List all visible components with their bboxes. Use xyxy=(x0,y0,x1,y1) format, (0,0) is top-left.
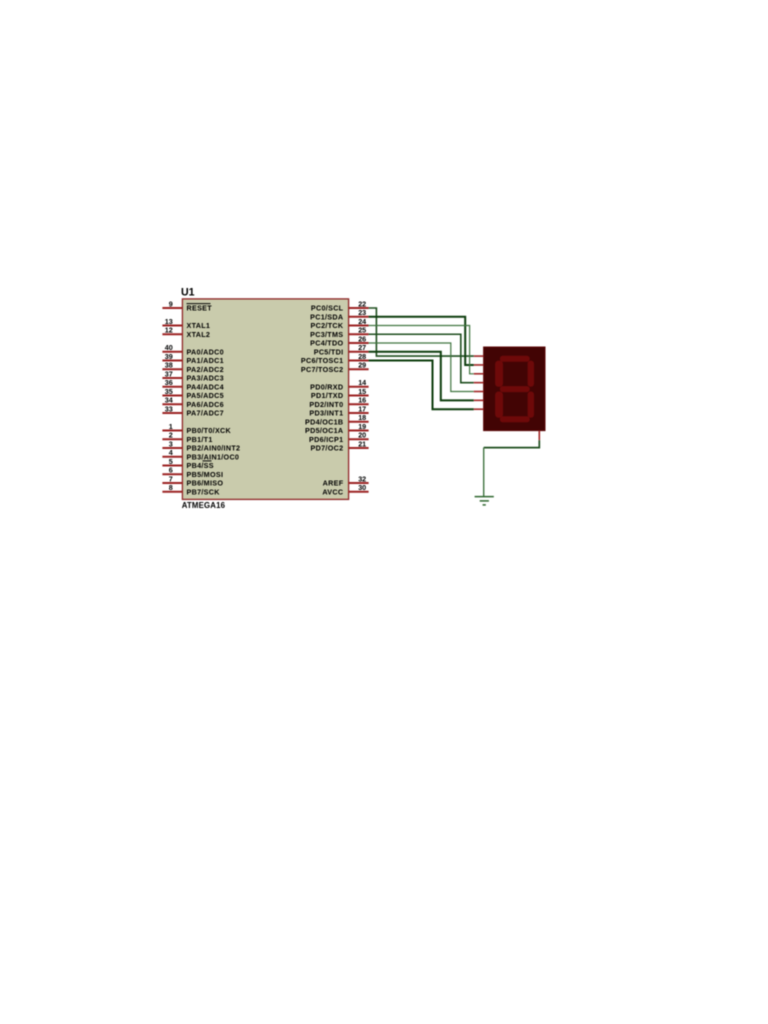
wire PC6 (pin 28) to display segment pin 7 xyxy=(369,361,474,410)
svg-text:7: 7 xyxy=(169,474,173,483)
pin 36 PA4/ADC4 (left stub) xyxy=(162,378,224,391)
svg-text:PB6/MISO: PB6/MISO xyxy=(187,479,224,488)
svg-text:26: 26 xyxy=(358,334,366,343)
svg-text:17: 17 xyxy=(358,404,366,413)
svg-text:16: 16 xyxy=(358,396,366,405)
value label ATMEGA16 xyxy=(182,501,226,510)
svg-text:PB7/SCK: PB7/SCK xyxy=(187,487,221,496)
pin 1 PB0/T0/XCK (left stub) xyxy=(162,422,231,435)
svg-text:XTAL2: XTAL2 xyxy=(187,330,211,339)
svg-text:3: 3 xyxy=(169,439,173,448)
wire PC0 (pin 22) to display segment pin 1 xyxy=(369,308,474,356)
segment a xyxy=(500,356,530,362)
segment f xyxy=(495,361,503,387)
svg-text:PA0/ADC0: PA0/ADC0 xyxy=(187,347,224,356)
svg-text:22: 22 xyxy=(358,299,366,308)
svg-text:20: 20 xyxy=(358,431,366,440)
pin 32 AREF (right stub) xyxy=(323,474,369,487)
wire display common to ground (upper segment) xyxy=(484,440,540,447)
svg-text:U1: U1 xyxy=(181,287,195,299)
svg-text:25: 25 xyxy=(358,326,366,335)
svg-text:PC2/TCK: PC2/TCK xyxy=(311,321,344,330)
pin 19 PD5/OC1A (right stub) xyxy=(305,422,369,435)
svg-text:PD6/ICP1: PD6/ICP1 xyxy=(309,435,343,444)
svg-text:5: 5 xyxy=(169,457,173,466)
svg-text:PA7/ADC7: PA7/ADC7 xyxy=(187,409,224,418)
svg-text:34: 34 xyxy=(165,396,173,405)
svg-text:4: 4 xyxy=(169,448,173,457)
microcontroller U1 ATMEGA16 body xyxy=(182,299,348,500)
wire PC5 (pin 27) to display segment pin 6 xyxy=(369,352,474,401)
svg-text:38: 38 xyxy=(165,361,173,370)
svg-text:39: 39 xyxy=(165,352,173,361)
segment c xyxy=(528,392,534,418)
wire PC1 (pin 23) to display segment pin 2 xyxy=(369,317,474,365)
display pin 3 stub xyxy=(474,373,484,375)
pin 5 PB4/SS (left stub) xyxy=(162,457,213,470)
svg-text:RESET: RESET xyxy=(187,304,213,313)
pin 14 PD0/RXD (right stub) xyxy=(310,378,368,391)
svg-text:PB3/AIN1/OC0: PB3/AIN1/OC0 xyxy=(187,452,240,461)
svg-text:21: 21 xyxy=(358,439,366,448)
svg-text:PA3/ADC3: PA3/ADC3 xyxy=(187,374,224,383)
svg-text:PC6/TOSC1: PC6/TOSC1 xyxy=(301,356,344,365)
svg-text:PC5/TDI: PC5/TDI xyxy=(314,347,344,356)
pin 13 XTAL1 (left stub) xyxy=(162,317,210,330)
ground symbol xyxy=(475,497,494,505)
svg-text:PA5/ADC5: PA5/ADC5 xyxy=(187,391,224,400)
svg-text:27: 27 xyxy=(358,343,366,352)
pin 35 PA5/ADC5 (left stub) xyxy=(162,387,224,400)
svg-text:PB2/AIN0/INT2: PB2/AIN0/INT2 xyxy=(187,444,241,453)
svg-text:PB1/T1: PB1/T1 xyxy=(187,435,213,444)
svg-text:PD1/TXD: PD1/TXD xyxy=(311,391,343,400)
svg-text:PC0/SCL: PC0/SCL xyxy=(311,304,344,313)
svg-text:2: 2 xyxy=(169,431,173,440)
svg-text:ATMEGA16: ATMEGA16 xyxy=(182,501,226,510)
pin 29 PC7/TOSC2 (right stub) xyxy=(301,361,369,374)
reference designator U1 xyxy=(181,287,195,299)
segment d xyxy=(500,416,530,422)
svg-text:PA1/ADC1: PA1/ADC1 xyxy=(187,356,224,365)
pin 28 PC6/TOSC1 (right stub) xyxy=(301,352,369,365)
svg-text:6: 6 xyxy=(169,466,173,475)
7-segment display body xyxy=(484,347,545,431)
svg-text:PC7/TOSC2: PC7/TOSC2 xyxy=(301,365,344,374)
svg-text:PC4/TDO: PC4/TDO xyxy=(310,339,343,348)
svg-text:37: 37 xyxy=(165,369,173,378)
svg-text:PC1/SDA: PC1/SDA xyxy=(310,312,343,321)
display pin 6 stub xyxy=(474,399,484,401)
pin 34 PA6/ADC6 (left stub) xyxy=(162,396,224,409)
svg-text:36: 36 xyxy=(165,378,173,387)
svg-text:15: 15 xyxy=(358,387,366,396)
wire PC3 (pin 25) to display segment pin 4 xyxy=(369,334,474,382)
pin 18 PD4/OC1B (right stub) xyxy=(305,413,369,426)
pin 6 PB5/MOSI (left stub) xyxy=(162,466,223,479)
pin 21 PD7/OC2 (right stub) xyxy=(311,439,369,452)
pin 22 PC0/SCL (right stub) xyxy=(311,299,369,312)
pin 38 PA2/ADC2 (left stub) xyxy=(162,361,224,374)
pin 20 PD6/ICP1 (right stub) xyxy=(309,431,369,444)
pin 12 XTAL2 (left stub) xyxy=(162,326,210,339)
pin 7 PB6/MISO (left stub) xyxy=(162,474,223,487)
segment e xyxy=(495,392,503,418)
pin 25 PC3/TMS (right stub) xyxy=(310,326,368,339)
svg-text:28: 28 xyxy=(358,352,366,361)
svg-text:23: 23 xyxy=(358,308,366,317)
svg-text:PD5/OC1A: PD5/OC1A xyxy=(305,426,343,435)
display pin 7 stub xyxy=(474,408,484,410)
display common pin stub (bottom) xyxy=(538,431,540,441)
pin 16 PD2/INT0 (right stub) xyxy=(309,396,368,409)
svg-text:PD2/INT0: PD2/INT0 xyxy=(309,400,343,409)
svg-text:33: 33 xyxy=(165,404,173,413)
svg-text:AREF: AREF xyxy=(323,479,344,488)
svg-text:9: 9 xyxy=(169,299,173,308)
display pin 4 stub xyxy=(474,382,484,384)
pin 27 PC5/TDI (right stub) xyxy=(314,343,369,356)
svg-text:PA4/ADC4: PA4/ADC4 xyxy=(187,382,224,391)
svg-text:13: 13 xyxy=(165,317,173,326)
svg-text:40: 40 xyxy=(165,343,173,352)
svg-text:32: 32 xyxy=(358,474,366,483)
display digit 8 (unlit segments) xyxy=(495,356,534,423)
pin 26 PC4/TDO (right stub) xyxy=(310,334,368,347)
svg-text:8: 8 xyxy=(169,483,173,492)
pin 40 PA0/ADC0 (left stub) xyxy=(162,343,224,356)
svg-text:1: 1 xyxy=(169,422,173,431)
pin 33 PA7/ADC7 (left stub) xyxy=(162,404,224,417)
svg-text:PD7/OC2: PD7/OC2 xyxy=(311,444,344,453)
pin 4 PB3/AIN1/OC0 (left stub) xyxy=(162,448,239,461)
svg-text:XTAL1: XTAL1 xyxy=(187,321,211,330)
pin 15 PD1/TXD (right stub) xyxy=(311,387,369,400)
svg-text:24: 24 xyxy=(358,317,366,326)
svg-text:AVCC: AVCC xyxy=(322,487,343,496)
svg-text:14: 14 xyxy=(358,378,366,387)
wire ground drop (vertical segment) xyxy=(483,448,485,497)
pin 8 PB7/SCK (left stub) xyxy=(162,483,220,496)
pin 30 AVCC (right stub) xyxy=(322,483,368,496)
svg-text:12: 12 xyxy=(165,326,173,335)
pin 2 PB1/T1 (left stub) xyxy=(162,431,212,444)
segment g xyxy=(500,386,530,392)
svg-text:18: 18 xyxy=(358,413,366,422)
display pin 2 stub xyxy=(474,364,484,366)
svg-text:PA6/ADC6: PA6/ADC6 xyxy=(187,400,224,409)
svg-text:PD4/OC1B: PD4/OC1B xyxy=(305,417,343,426)
svg-text:PC3/TMS: PC3/TMS xyxy=(310,330,343,339)
pin 23 PC1/SDA (right stub) xyxy=(310,308,368,321)
svg-text:PB5/MOSI: PB5/MOSI xyxy=(187,470,224,479)
pin 9 RESET (left stub) xyxy=(162,299,212,312)
pin 17 PD3/INT1 (right stub) xyxy=(309,404,368,417)
display pin 1 stub xyxy=(474,355,484,357)
pin 24 PC2/TCK (right stub) xyxy=(311,317,369,330)
segment b xyxy=(528,361,534,387)
wire PC4 (pin 26) to display segment pin 5 xyxy=(369,343,474,392)
svg-text:PB0/T0/XCK: PB0/T0/XCK xyxy=(187,426,232,435)
svg-text:PD3/INT1: PD3/INT1 xyxy=(309,409,343,418)
svg-text:35: 35 xyxy=(165,387,173,396)
svg-text:19: 19 xyxy=(358,422,366,431)
svg-text:PB4/SS: PB4/SS xyxy=(187,461,214,470)
svg-text:PD0/RXD: PD0/RXD xyxy=(310,382,343,391)
display pin 5 stub xyxy=(474,391,484,393)
pin 37 PA3/ADC3 (left stub) xyxy=(162,369,224,382)
pin 39 PA1/ADC1 (left stub) xyxy=(162,352,224,365)
pin 3 PB2/AIN0/INT2 (left stub) xyxy=(162,439,240,452)
wire PC2 (pin 24) to display segment pin 3 xyxy=(369,326,474,374)
svg-text:29: 29 xyxy=(358,361,366,370)
svg-text:30: 30 xyxy=(358,483,366,492)
svg-text:PA2/ADC2: PA2/ADC2 xyxy=(187,365,224,374)
